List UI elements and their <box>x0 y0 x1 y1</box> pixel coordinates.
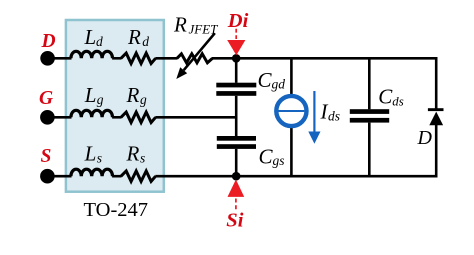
inductor Ld <box>71 51 113 58</box>
capacitor Cgd <box>216 83 256 96</box>
svg-text:D: D <box>41 31 56 52</box>
svg-text:Si: Si <box>226 210 243 232</box>
wire Lg to Rg <box>112 116 121 119</box>
label Ld <box>84 25 104 49</box>
svg-text:TO-247: TO-247 <box>84 199 149 221</box>
wire S dot to inductor Ls <box>47 175 71 178</box>
wire Di node to Cgd <box>235 58 238 83</box>
svg-text:L: L <box>84 142 97 166</box>
wire Cgd to Cgs (gate node) <box>235 96 238 136</box>
resistor Rs <box>121 171 156 181</box>
arrow through RJFET (variable resistor arrow) <box>176 33 215 79</box>
node Di junction dot <box>232 54 241 63</box>
svg-text:R: R <box>173 13 187 37</box>
bottom rail wire (source rail) <box>155 175 436 178</box>
svg-text:s: s <box>97 151 102 166</box>
label Ids <box>320 100 341 124</box>
label Cgs <box>259 144 285 168</box>
label Ls <box>84 142 102 166</box>
Si arrow (red, pointing up to node) <box>228 180 245 210</box>
wire diode branch top <box>435 57 438 109</box>
TO-247 package outline box <box>66 20 164 192</box>
wire Cds branch top <box>368 58 371 109</box>
svg-text:gd: gd <box>272 77 286 92</box>
svg-text:ds: ds <box>328 108 340 123</box>
label Rg <box>126 83 148 107</box>
svg-text:R: R <box>126 83 140 107</box>
svg-text:C: C <box>378 85 393 109</box>
inductor Ls <box>71 169 113 176</box>
label Rd <box>127 25 149 49</box>
svg-text:gs: gs <box>273 153 285 168</box>
svg-text:g: g <box>140 92 147 107</box>
svg-text:L: L <box>84 25 97 49</box>
wire diode branch bottom <box>435 125 438 178</box>
label Cds <box>378 85 403 109</box>
wire Cgs to Si node <box>235 149 238 176</box>
svg-text:R: R <box>126 142 140 166</box>
diode D (body diode) <box>428 108 444 125</box>
svg-text:D: D <box>417 127 433 149</box>
terminal S dot <box>40 169 55 184</box>
svg-text:ds: ds <box>392 95 403 109</box>
capacitor Cds <box>350 109 389 122</box>
inductor Lg <box>71 110 113 117</box>
svg-text:G: G <box>39 88 53 109</box>
svg-text:d: d <box>96 34 103 49</box>
resistor Rd <box>121 53 156 63</box>
Ids arrow (blue, downward) <box>308 91 320 144</box>
wire Ls to Rs <box>112 175 121 178</box>
Di arrow (red, pointing down to node) <box>227 29 245 56</box>
current source Ids (circle) <box>276 96 306 126</box>
svg-text:S: S <box>41 146 52 167</box>
label Lg <box>84 83 104 107</box>
resistor RJFET (variable) <box>177 54 213 63</box>
wire Rg to gate node <box>155 116 237 119</box>
wire Rd to RJFET <box>155 57 177 60</box>
svg-text:L: L <box>84 83 97 107</box>
svg-text:R: R <box>127 25 141 49</box>
svg-text:s: s <box>140 151 145 166</box>
svg-text:Di: Di <box>227 10 249 32</box>
resistor Rg <box>121 112 156 122</box>
top rail wire (drain rail) <box>212 57 436 60</box>
label Cgd <box>258 68 286 92</box>
wire Cds branch bottom <box>368 123 371 177</box>
wire Ld to Rd <box>112 57 121 60</box>
terminal D dot <box>40 51 55 66</box>
node Si junction dot <box>232 172 241 181</box>
label RJFET <box>173 13 218 37</box>
label Rs <box>126 142 146 166</box>
svg-text:C: C <box>258 68 273 92</box>
wire current source branch <box>290 58 293 176</box>
svg-text:C: C <box>259 144 274 168</box>
wire G dot to inductor Lg <box>47 116 71 119</box>
svg-text:d: d <box>142 34 149 49</box>
svg-text:g: g <box>97 92 104 107</box>
wire D dot to inductor Ld <box>48 57 72 60</box>
capacitor Cgs <box>217 136 256 149</box>
terminal G dot <box>40 110 55 125</box>
